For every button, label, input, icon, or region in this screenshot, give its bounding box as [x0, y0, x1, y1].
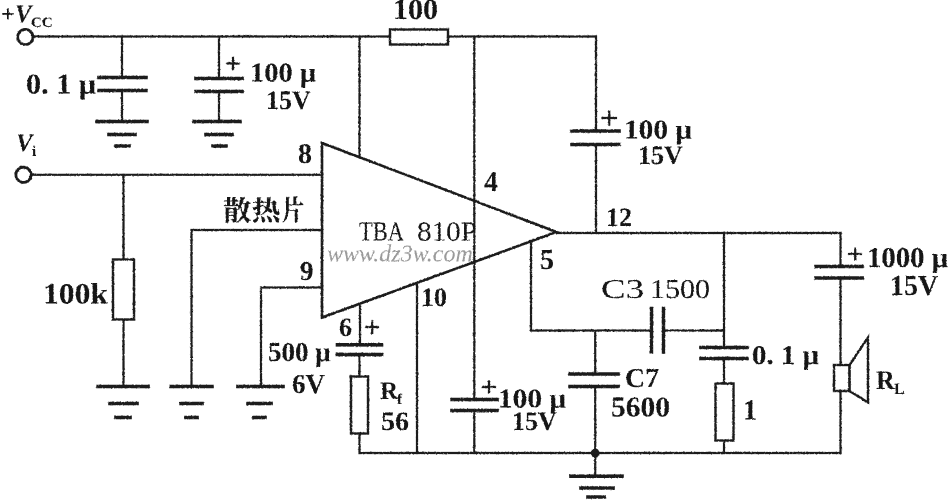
resistor 1: [716, 384, 734, 454]
capacitor 1000u 15V: [816, 233, 862, 365]
value 100: [393, 0, 438, 26]
svg-text:1: 1: [743, 396, 757, 427]
wire ground stem: [594, 453, 596, 476]
pin 9 label: [300, 256, 314, 286]
svg-text:CC: CC: [31, 15, 53, 31]
capacitor 100u 15V right: [572, 37, 619, 234]
wire pin 5: [530, 242, 532, 331]
label TBA 810P: [359, 217, 477, 247]
capacitor 100u 15V supply: [196, 37, 242, 122]
wire pin 9: [261, 288, 322, 387]
node +Vcc label: [1, 1, 53, 31]
wire heat sink: [192, 230, 323, 387]
junction dot: [591, 449, 600, 458]
svg-text:100: 100: [393, 0, 438, 26]
value 0.1u: [26, 70, 96, 101]
capacitor 0.1u input: [99, 37, 146, 122]
svg-text:100 μ: 100 μ: [250, 58, 316, 88]
svg-text:15V: 15V: [266, 86, 311, 115]
value C3 1500: [601, 274, 710, 304]
svg-text:15V: 15V: [638, 141, 683, 170]
svg-text:1000 μ: 1000 μ: [867, 243, 948, 274]
capacitor 0.1u output: [701, 233, 747, 384]
capacitor C7 5600: [570, 331, 618, 454]
svg-text:1500: 1500: [650, 274, 710, 304]
value 0.1u output: [752, 340, 819, 370]
svg-text:15V: 15V: [512, 407, 557, 436]
wire output node: [557, 232, 841, 234]
watermark: [327, 242, 473, 268]
svg-text:C3: C3: [601, 274, 644, 304]
terminal Vi: [16, 167, 31, 182]
wire top rail right: [448, 35, 596, 37]
svg-text:12: 12: [606, 203, 632, 232]
capacitor 500u 6V: [338, 304, 382, 377]
svg-text:100k: 100k: [43, 278, 108, 311]
value 100u 15V right: [624, 115, 692, 171]
op-amp U1 TBA810P: [322, 143, 557, 318]
label RL: [876, 366, 905, 398]
node Vi label: [16, 130, 36, 160]
ground under 100u: [194, 122, 240, 147]
wire C3 branch: [531, 329, 724, 331]
svg-text:6: 6: [339, 313, 352, 342]
capacitor 100u 15V bottom: [452, 382, 497, 454]
svg-text:5: 5: [540, 245, 554, 276]
capacitor C3 1500: [652, 309, 664, 353]
svg-text:i: i: [32, 144, 36, 160]
value 100u 15V bottom: [498, 384, 566, 437]
svg-text:10: 10: [421, 283, 447, 312]
svg-text:9: 9: [300, 256, 314, 286]
pin 4 label: [484, 167, 498, 198]
svg-text:56: 56: [381, 407, 409, 436]
svg-text:8: 8: [298, 139, 312, 170]
svg-text:www.dz3w.com: www.dz3w.com: [327, 242, 473, 268]
value 1: [743, 396, 757, 427]
pin 12 label: [606, 203, 632, 232]
svg-text:0. 1 μ: 0. 1 μ: [752, 340, 819, 370]
wire pin 10: [416, 283, 418, 453]
ground pin 9: [238, 387, 283, 418]
pin 10 label: [421, 283, 447, 312]
value 100u 15V: [250, 58, 316, 116]
ground heat sink: [171, 387, 212, 418]
value 1000u 15V: [867, 243, 948, 302]
wire top rail left: [33, 35, 390, 37]
speaker RL: [834, 338, 868, 454]
svg-text:L: L: [894, 381, 905, 398]
wire Vcc pin stub: [358, 37, 360, 158]
resistor 100: [390, 30, 448, 45]
svg-text:f: f: [397, 392, 403, 408]
value C7 5600: [611, 363, 670, 424]
resistor Rf 56: [351, 377, 368, 454]
svg-text:500 μ: 500 μ: [268, 337, 331, 367]
ground main: [571, 476, 622, 497]
value 100k: [43, 278, 108, 311]
wire bottom rail: [360, 452, 841, 454]
svg-text:R: R: [876, 366, 895, 395]
pin 5 label: [540, 245, 554, 276]
ground under 0.1u: [97, 122, 147, 147]
svg-text:4: 4: [484, 167, 498, 198]
svg-text:15V: 15V: [890, 271, 938, 302]
svg-text:6V: 6V: [292, 369, 326, 399]
pin 8 label: [298, 139, 312, 170]
terminal +Vcc: [18, 29, 33, 44]
svg-text:+: +: [1, 2, 15, 28]
value Rf 56: [380, 378, 409, 436]
pin 6 label: [339, 313, 352, 342]
svg-text:100 μ: 100 μ: [624, 115, 692, 145]
svg-text:0. 1 μ: 0. 1 μ: [26, 70, 96, 101]
svg-text:5600: 5600: [611, 392, 670, 424]
value 500u 6V: [268, 337, 331, 399]
resistor 100k: [113, 175, 134, 387]
wire input: [32, 174, 323, 176]
heat sink label 散热片: [224, 197, 304, 223]
ground under 100k: [98, 387, 148, 418]
svg-text:C7: C7: [625, 363, 659, 393]
wire pin 4 line: [473, 37, 475, 400]
